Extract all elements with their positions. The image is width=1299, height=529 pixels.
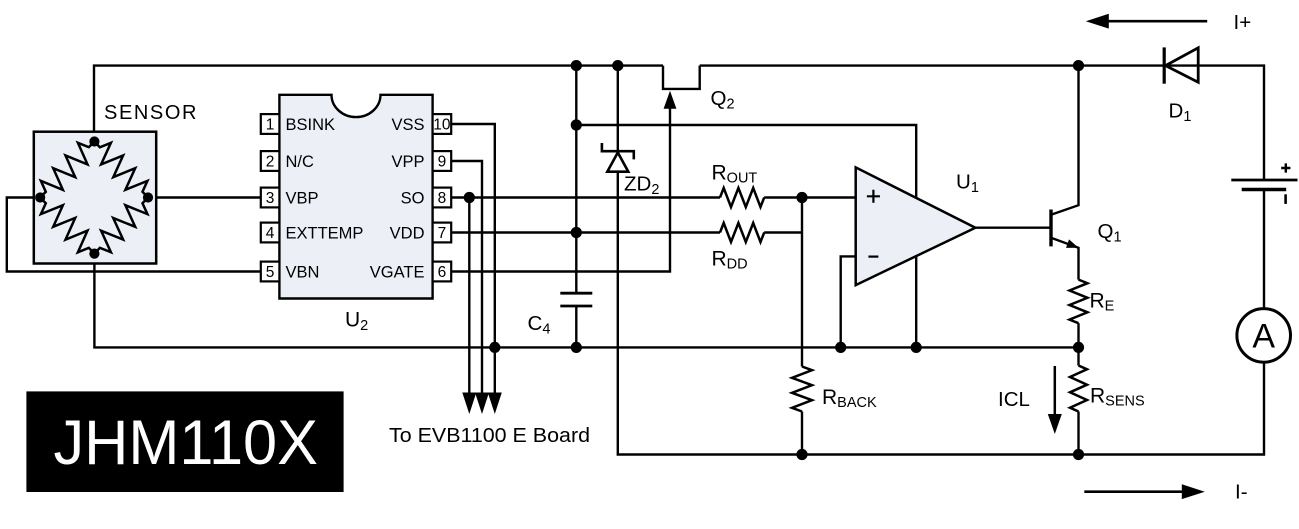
- ICL current arrow: [1054, 366, 1057, 414]
- svg-text:ICL: ICL: [998, 388, 1030, 411]
- ammeter A: [1237, 309, 1291, 363]
- battery negative plate: [1242, 188, 1287, 192]
- pin 10 box: [433, 114, 452, 134]
- node sensor right: [143, 192, 153, 202]
- node junction: [796, 192, 807, 203]
- svg-text:I-: I-: [1235, 481, 1248, 504]
- wire pin 9 VPP down to EVB board arrow: [451, 161, 482, 393]
- svg-text:VSS: VSS: [391, 116, 424, 134]
- svg-text:2: 2: [266, 154, 275, 171]
- wire sensor bottom to common rail: [94, 254, 1078, 348]
- svg-text:U1: U1: [956, 171, 979, 197]
- node junction: [911, 342, 922, 353]
- op-amp U1: [856, 167, 976, 285]
- battery plus mark: [1281, 163, 1290, 172]
- resistor RSENS: [1070, 366, 1087, 412]
- pin 5 box: [261, 262, 280, 282]
- svg-text:RBACK: RBACK: [822, 386, 877, 411]
- bridge resistor right-bottom arm: [94, 198, 148, 254]
- svg-text:JHM110X: JHM110X: [54, 408, 319, 478]
- bridge resistor bottom-left arm: [40, 198, 94, 254]
- svg-text:C4: C4: [528, 312, 551, 338]
- logo JHM110X: [26, 391, 343, 492]
- svg-text:U2: U2: [345, 309, 368, 335]
- svg-text:To EVB1100 E Board: To EVB1100 E Board: [389, 425, 590, 447]
- EVB board connector arrow: [462, 393, 476, 415]
- resistor RE: [1070, 280, 1088, 324]
- svg-text:Q1: Q1: [1098, 220, 1122, 246]
- pin 6 box: [433, 262, 452, 282]
- node junction: [571, 342, 582, 353]
- pin 3 box: [261, 188, 280, 208]
- wire Q1 collector to top rail: [1051, 66, 1079, 215]
- node junction: [612, 60, 623, 71]
- pin 7 box: [433, 223, 452, 243]
- wire top rail right from Q2 to right corner down to battery: [700, 66, 1264, 180]
- wire ROUT to op-amp plus input: [764, 196, 856, 198]
- svg-text:VBN: VBN: [286, 264, 320, 282]
- svg-text:RE: RE: [1090, 290, 1115, 315]
- diode D1: [1163, 47, 1166, 83]
- battery minus mark: [1284, 194, 1287, 204]
- node junction: [1073, 342, 1084, 353]
- svg-text:7: 7: [438, 225, 447, 242]
- node junction: [835, 342, 846, 353]
- EVB board connector arrow: [488, 393, 502, 415]
- svg-text:4: 4: [266, 225, 275, 242]
- bridge resistor top-right arm: [94, 142, 148, 198]
- wire pin 7 VDD to RDD: [451, 231, 720, 233]
- svg-text:SO: SO: [401, 190, 425, 208]
- svg-text:I+: I+: [1234, 11, 1252, 34]
- capacitor C4: [560, 292, 592, 295]
- zener diode ZD2: [602, 143, 634, 159]
- wire RE to RSENS through common rail: [1077, 323, 1079, 365]
- wire op-amp output to Q1 base: [975, 226, 1051, 228]
- node sensor bottom: [89, 249, 99, 259]
- node junction: [571, 119, 582, 130]
- wire top rail to op-amp supply, node at common rail: [576, 125, 916, 347]
- pin 8 box: [433, 188, 452, 208]
- node junction: [1073, 60, 1084, 71]
- pin 4 box: [261, 223, 280, 243]
- wire SO tap down to EVB board arrow: [468, 198, 470, 393]
- pin 1 box: [261, 114, 280, 134]
- wire pin 6 VGATE up to Q2 gate arrow: [451, 108, 670, 272]
- svg-text:D1: D1: [1169, 100, 1192, 126]
- svg-text:10: 10: [433, 117, 451, 134]
- wire pin 8 SO to ROUT: [451, 196, 720, 198]
- node junction: [571, 60, 582, 71]
- wire top rail left from sensor to Q2: [94, 66, 663, 142]
- svg-text:9: 9: [438, 154, 447, 171]
- wire ammeter top to battery: [1263, 190, 1265, 308]
- wire RSENS to bottom rail: [1077, 412, 1079, 455]
- pin 9 box: [433, 151, 452, 171]
- pin 2 box: [261, 151, 280, 171]
- wire op-amp minus input to common rail: [841, 256, 856, 347]
- node sensor left: [35, 192, 45, 202]
- current arrow I-: [1084, 490, 1183, 493]
- bridge resistor left-top arm: [40, 142, 94, 198]
- EVB board connector arrow: [475, 393, 489, 415]
- svg-text:BSINK: BSINK: [286, 116, 336, 134]
- svg-text:VGATE: VGATE: [370, 264, 425, 282]
- resistor RDD: [720, 223, 764, 242]
- wire RDD right end: [764, 231, 802, 233]
- svg-text:5: 5: [266, 264, 275, 281]
- resistor ROUT: [720, 188, 764, 207]
- wire Q1 emitter to RE: [1051, 238, 1079, 280]
- battery positive plate: [1231, 179, 1297, 182]
- svg-text:8: 8: [438, 190, 447, 207]
- wire sensor left node loop to pin 5 VBN: [7, 198, 261, 272]
- node junction: [489, 342, 500, 353]
- node junction: [571, 227, 582, 238]
- svg-text:VPP: VPP: [391, 153, 424, 171]
- wire zener ZD2 branch and bottom return rail: [617, 66, 619, 151]
- transistor Q2 gate arrow: [664, 91, 677, 109]
- transistor Q1: [1049, 210, 1052, 247]
- resistor RBACK: [792, 367, 812, 412]
- wire VDD vertical through C4: [575, 66, 577, 294]
- svg-text:ROUT: ROUT: [712, 162, 758, 187]
- svg-text:RDD: RDD: [712, 248, 748, 273]
- sensor bridge box: [34, 132, 156, 264]
- svg-text:VBP: VBP: [286, 190, 319, 208]
- svg-text:3: 3: [266, 190, 275, 207]
- wire plus-input node down through RBACK to bottom rail: [801, 198, 803, 367]
- svg-text:Q2: Q2: [711, 87, 735, 113]
- svg-text:VDD: VDD: [390, 225, 425, 243]
- node junction: [464, 192, 475, 203]
- svg-text:RSENS: RSENS: [1090, 385, 1145, 410]
- current arrow I+: [1106, 20, 1207, 23]
- svg-text:SENSOR: SENSOR: [104, 102, 198, 124]
- node junction: [1073, 449, 1084, 460]
- svg-text:ZD2: ZD2: [624, 173, 659, 199]
- svg-text:N/C: N/C: [286, 153, 315, 171]
- wire pin 10 VSS down to EVB board arrow: [451, 124, 495, 393]
- svg-text:A: A: [1252, 318, 1275, 356]
- IC U2 body: [279, 95, 432, 299]
- svg-text:6: 6: [438, 264, 447, 281]
- transistor Q2 (pass element notch in top rail): [663, 66, 700, 89]
- node sensor top: [89, 136, 99, 146]
- node junction: [796, 449, 807, 460]
- svg-text:1: 1: [266, 117, 275, 134]
- svg-text:EXTTEMP: EXTTEMP: [286, 225, 364, 243]
- wire sensor right node to pin 3 VBP: [148, 196, 261, 198]
